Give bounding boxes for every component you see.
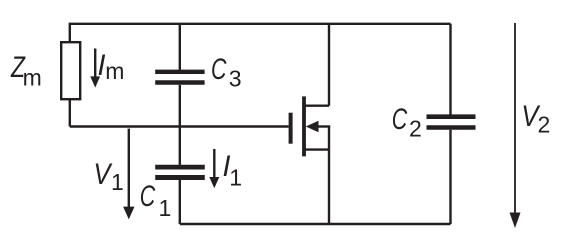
label Im [98, 49, 125, 84]
arrow Im (current) [90, 49, 100, 88]
wire bottom rail [180, 223, 451, 225]
capacitor C3 [155, 72, 204, 83]
svg-text:3: 3 [229, 66, 242, 92]
arrow V2 (output voltage) [510, 23, 521, 228]
body vertical to source [328, 127, 330, 150]
capacitor C2 [427, 117, 476, 128]
source tap [304, 148, 329, 150]
wire C3 top [179, 24, 181, 70]
wire source vertical [328, 150, 330, 224]
label C3 [211, 53, 241, 92]
svg-text:2: 2 [538, 112, 551, 138]
body arrow [317, 125, 331, 127]
svg-text:m: m [105, 58, 124, 84]
label V1 [94, 158, 124, 195]
impedance Zm (box) [61, 42, 80, 99]
wire C2 bottom [449, 130, 451, 224]
label Zm [10, 51, 42, 91]
svg-text:I: I [98, 49, 106, 82]
label I1 [223, 150, 243, 191]
svg-text:1: 1 [229, 165, 242, 191]
transistor Q1 (MOSFET) [289, 96, 331, 156]
svg-text:2: 2 [409, 116, 422, 142]
wire C2 top [449, 24, 451, 115]
svg-text:m: m [23, 65, 42, 91]
label C1 [140, 180, 172, 221]
gate bar [289, 113, 293, 144]
svg-text:1: 1 [159, 195, 172, 221]
wire drain vertical [328, 24, 330, 106]
svg-text:C: C [392, 103, 408, 136]
label V2 [521, 100, 550, 138]
arrow I1 (current) [209, 149, 219, 188]
svg-text:1: 1 [111, 169, 124, 195]
svg-text:C: C [211, 53, 227, 86]
capacitor C1 [155, 167, 205, 177]
wire top rail [70, 24, 451, 42]
wire middle rail (gate net) [70, 125, 289, 127]
wire node between C3 and C1 [179, 85, 181, 165]
drain tap [304, 104, 329, 106]
arrow V1 (voltage) [123, 129, 134, 220]
channel bar [302, 96, 306, 156]
label C2 [392, 103, 422, 142]
wire C1 bottom [179, 180, 181, 224]
wire left vertical below Zm [69, 100, 71, 127]
svg-text:C: C [140, 180, 156, 213]
